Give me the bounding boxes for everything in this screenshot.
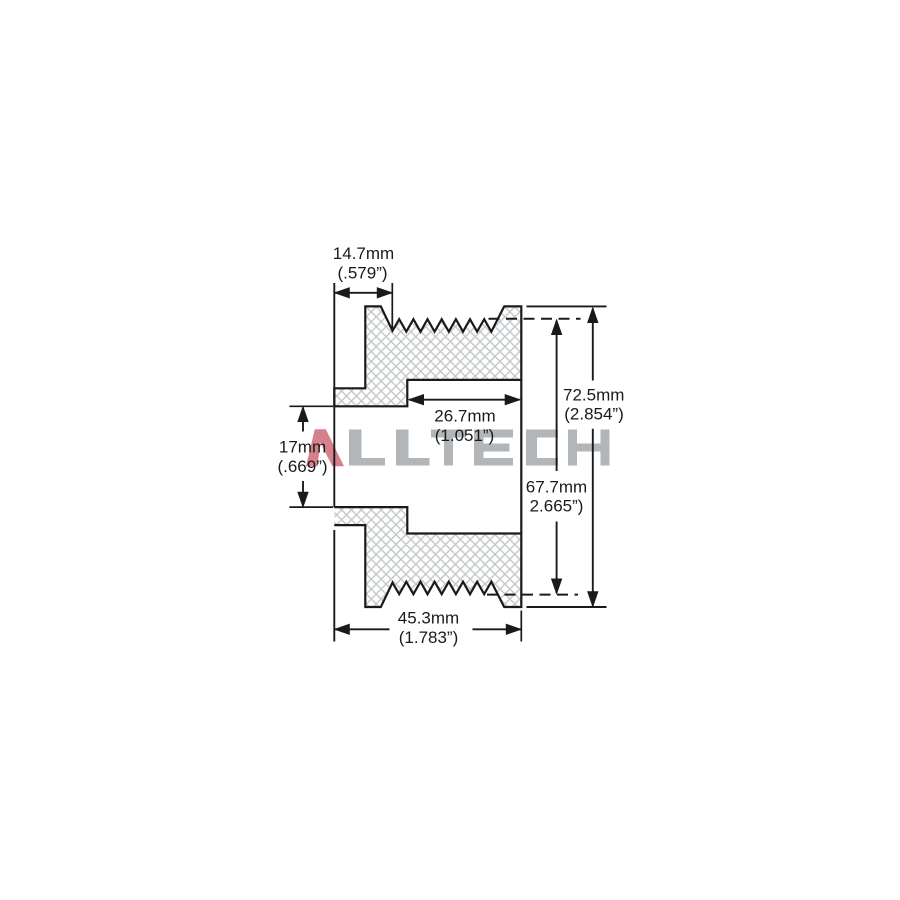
svg-text:17mm: 17mm bbox=[279, 437, 326, 456]
svg-text:14.7mm: 14.7mm bbox=[333, 244, 394, 263]
svg-text:(1.783”): (1.783”) bbox=[399, 628, 459, 647]
svg-text:(.579”): (.579”) bbox=[337, 264, 387, 283]
svg-text:(.669”): (.669”) bbox=[277, 457, 327, 476]
svg-text:67.7mm: 67.7mm bbox=[526, 477, 587, 496]
svg-text:(2.854”): (2.854”) bbox=[564, 404, 624, 423]
svg-text:2.665”): 2.665”) bbox=[530, 497, 584, 516]
svg-text:26.7mm: 26.7mm bbox=[434, 406, 495, 425]
svg-text:(1.051”): (1.051”) bbox=[435, 426, 495, 445]
svg-text:72.5mm: 72.5mm bbox=[563, 385, 624, 404]
svg-text:45.3mm: 45.3mm bbox=[398, 609, 459, 628]
